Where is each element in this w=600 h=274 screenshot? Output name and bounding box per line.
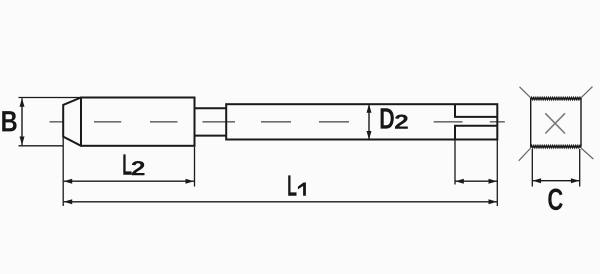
neck	[195, 108, 227, 135]
label L1	[288, 175, 296, 195]
dimension D2 arrow line	[368, 104, 370, 139]
centerline	[50, 121, 505, 123]
cutting body	[81, 98, 195, 146]
L2 extension line right	[194, 147, 196, 187]
label B	[2, 111, 16, 131]
label C	[548, 189, 562, 211]
dimension B arrow line	[21, 98, 23, 145]
end view: square bottom zigzag edge	[531, 146, 581, 148]
dimension L2	[64, 180, 194, 182]
square drive flats (side view slot)	[455, 104, 497, 139]
tap chamfered tip	[63, 98, 81, 146]
shank	[226, 104, 497, 139]
end view: flat-surface X mark	[545, 113, 565, 133]
L1/L2 extension line left	[62, 137, 64, 206]
dimension C	[533, 180, 580, 182]
L1 extension line right	[496, 141, 498, 207]
square length extension line	[454, 141, 456, 185]
end view: corner chamfer diagonals	[519, 87, 594, 161]
square length dimension (unlabeled)	[455, 180, 497, 182]
end view: square side edges	[531, 98, 581, 147]
dimension L1	[64, 201, 497, 203]
dimension B extension lines	[19, 98, 82, 146]
dimension C extension lines	[532, 149, 579, 187]
label L2	[123, 154, 131, 174]
end view: square top zigzag edge	[531, 98, 581, 100]
label D2	[381, 108, 394, 128]
